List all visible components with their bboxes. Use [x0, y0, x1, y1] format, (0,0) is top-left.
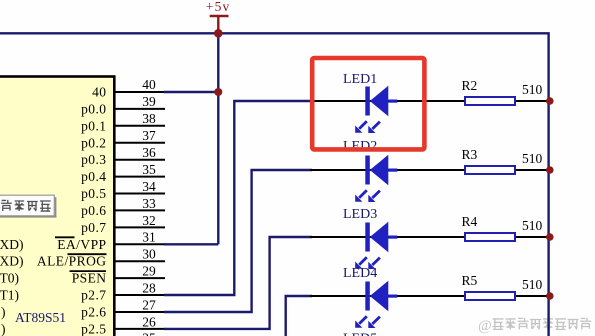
left-edge clipped pin labels: [0, 237, 24, 336]
LED4 triangle: [370, 281, 389, 311]
svg-text:): ): [1, 321, 6, 336]
resistor R3: [462, 147, 543, 174]
svg-text:LED5: LED5: [343, 332, 377, 336]
pin 27 stub: [114, 311, 165, 313]
svg-text:EA/VPP: EA/VPP: [57, 237, 106, 252]
wire: LED4 row black line: [310, 295, 549, 297]
pin numbers: [142, 77, 156, 336]
junction node R3/rail: [546, 166, 554, 174]
svg-text:XD): XD): [0, 237, 24, 252]
svg-text:AT89S51: AT89S51: [15, 310, 66, 325]
pin stubs pins 40..26: [114, 92, 165, 329]
resistor R5: [462, 273, 543, 300]
svg-text:36: 36: [142, 145, 156, 160]
LED LED2: [343, 139, 397, 202]
junction node R2/rail: [546, 97, 554, 105]
pin 36 stub: [114, 159, 165, 161]
MCU inside pin labels: [37, 85, 107, 336]
junction dot at pin40: [214, 88, 222, 96]
svg-text:p0.5: p0.5: [81, 186, 106, 201]
svg-text:35: 35: [142, 162, 156, 177]
svg-text:+5v: +5v: [206, 0, 231, 14]
pin 38 stub: [114, 125, 165, 127]
pin 29 stub: [114, 277, 165, 279]
svg-text:LED1: LED1: [343, 72, 377, 87]
svg-text:XD): XD): [0, 254, 24, 269]
svg-text:26: 26: [142, 314, 156, 329]
svg-text:39: 39: [142, 94, 156, 109]
svg-text:p0.0: p0.0: [81, 101, 106, 116]
pin 39 stub: [114, 108, 165, 110]
LED1 cathode bar: [365, 87, 370, 116]
wire: pin31 to +5v vertical: [164, 243, 218, 245]
svg-text:28: 28: [142, 280, 156, 295]
pin 30 stub: [114, 260, 165, 262]
svg-text:R5: R5: [462, 273, 478, 288]
svg-text:p0.6: p0.6: [81, 203, 106, 218]
svg-text:R2: R2: [462, 78, 478, 93]
LED1 right stub: [388, 100, 397, 103]
power +5v symbol: [206, 0, 231, 33]
svg-text:33: 33: [142, 196, 156, 211]
svg-text:p0.1: p0.1: [81, 118, 106, 133]
junction node R5/rail: [546, 292, 554, 300]
svg-text:p0.3: p0.3: [81, 152, 106, 167]
R3 body: [465, 166, 515, 174]
svg-text:27: 27: [142, 297, 156, 312]
pin 26 stub: [114, 328, 165, 330]
svg-text:32: 32: [142, 213, 156, 228]
svg-text:40: 40: [92, 85, 106, 100]
watermark text (under rail): [478, 318, 591, 334]
LED4 cathode bar: [365, 282, 370, 311]
wire: LED3 row black line: [310, 236, 549, 238]
resistor R2: [462, 78, 543, 105]
svg-text:ALE/PROG: ALE/PROG: [37, 254, 107, 269]
LED3 triangle: [370, 222, 389, 252]
LED3 arrows: [355, 257, 380, 269]
svg-text:510: 510: [522, 277, 543, 292]
overline over EA: [55, 236, 75, 238]
svg-text:p0.2: p0.2: [81, 135, 106, 150]
pin 40 stub: [114, 91, 165, 93]
wire: +5v vertical to pin40/pin31: [217, 33, 219, 244]
svg-text:R3: R3: [462, 147, 478, 162]
svg-text:34: 34: [142, 179, 156, 194]
LED1 triangle: [370, 86, 389, 116]
pin 35 stub: [114, 176, 165, 178]
svg-text:30: 30: [142, 247, 156, 262]
svg-text:): ): [1, 305, 6, 320]
svg-text:38: 38: [142, 111, 156, 126]
LED2 right stub: [388, 169, 397, 172]
LED2 arrows: [355, 190, 380, 202]
power stem: [217, 16, 219, 33]
pin 31 stub: [114, 243, 165, 245]
pin 28 stub: [114, 294, 165, 296]
svg-text:29: 29: [142, 264, 156, 279]
LED LED1: [343, 72, 397, 133]
LED2 cathode bar: [365, 156, 370, 185]
overline over PSEN: [70, 270, 107, 272]
svg-text:LED3: LED3: [343, 207, 377, 222]
LED3 right stub: [388, 236, 397, 239]
overline over PROG: [68, 253, 107, 255]
wire: LED1 net from pin28 p2.7: [164, 101, 312, 295]
svg-text:@: @: [478, 318, 492, 334]
R4 body: [465, 233, 515, 241]
R5 body: [465, 292, 515, 300]
tooltip overlay 看源网页: [0, 195, 57, 217]
LED4 right stub: [388, 295, 397, 298]
svg-text:p2.7: p2.7: [81, 288, 106, 303]
wire: LED3 net from pin26 p2.5: [164, 237, 312, 329]
R2 body: [465, 97, 515, 105]
LED2 triangle: [370, 155, 389, 185]
wire: LED1 row black line: [310, 100, 549, 102]
red highlight rectangle around LED1: [312, 58, 424, 149]
svg-text:510: 510: [522, 151, 543, 166]
pin 32 stub: [114, 226, 165, 228]
wire: pin40 to +5v vertical: [164, 91, 218, 93]
pin 34 stub: [114, 193, 165, 195]
resistor R4: [462, 214, 543, 241]
svg-text:LED4: LED4: [343, 266, 377, 281]
junction dot at +5v rail: [214, 29, 223, 38]
svg-text:p0.7: p0.7: [81, 220, 106, 235]
junction node R4/rail: [546, 233, 554, 241]
LED LED4: [343, 266, 397, 328]
pin 33 stub: [114, 209, 165, 211]
svg-text:p2.6: p2.6: [81, 305, 106, 320]
svg-text:R4: R4: [462, 214, 478, 229]
svg-text:510: 510: [522, 218, 543, 233]
MCU U1 AT89S51 body: [0, 77, 114, 336]
LED3 cathode bar: [365, 223, 370, 252]
svg-text:p0.4: p0.4: [81, 169, 106, 184]
svg-text:25: 25: [142, 331, 156, 336]
LED LED3: [343, 207, 397, 269]
svg-text:T0): T0): [0, 271, 19, 286]
svg-text:T1): T1): [0, 288, 19, 303]
LED4 arrows: [355, 316, 380, 328]
power bar: [210, 15, 229, 17]
svg-text:p2.5: p2.5: [81, 321, 106, 336]
svg-text:40: 40: [142, 77, 156, 92]
svg-text:31: 31: [142, 230, 156, 245]
wire: LED4 net from pin25 p2.4 (clipped): [286, 296, 312, 336]
wire: LED2 row black line: [310, 169, 549, 171]
svg-text:PSEN: PSEN: [72, 271, 107, 286]
LED1 arrows: [355, 121, 380, 133]
svg-text:LED2: LED2: [343, 139, 377, 154]
pin 37 stub: [114, 142, 165, 144]
svg-text:510: 510: [522, 82, 543, 97]
wire: LED2 net from pin27 p2.6: [164, 170, 312, 312]
svg-text:37: 37: [142, 128, 156, 143]
